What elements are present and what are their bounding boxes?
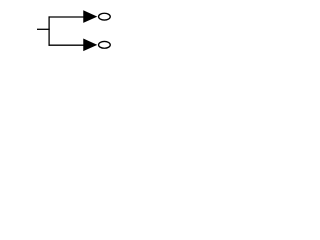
inverter U1 triangle (top): [83, 10, 97, 23]
inverter U2 triangle (bottom): [83, 39, 97, 52]
wire: bottom branch: [49, 44, 84, 46]
wire: input stub: [37, 28, 50, 30]
inverter U1 bubble (top): [99, 13, 111, 20]
wire: top branch: [49, 16, 84, 18]
wire: vertical bus: [48, 16, 50, 45]
inverter U2 bubble (bottom): [99, 41, 111, 48]
